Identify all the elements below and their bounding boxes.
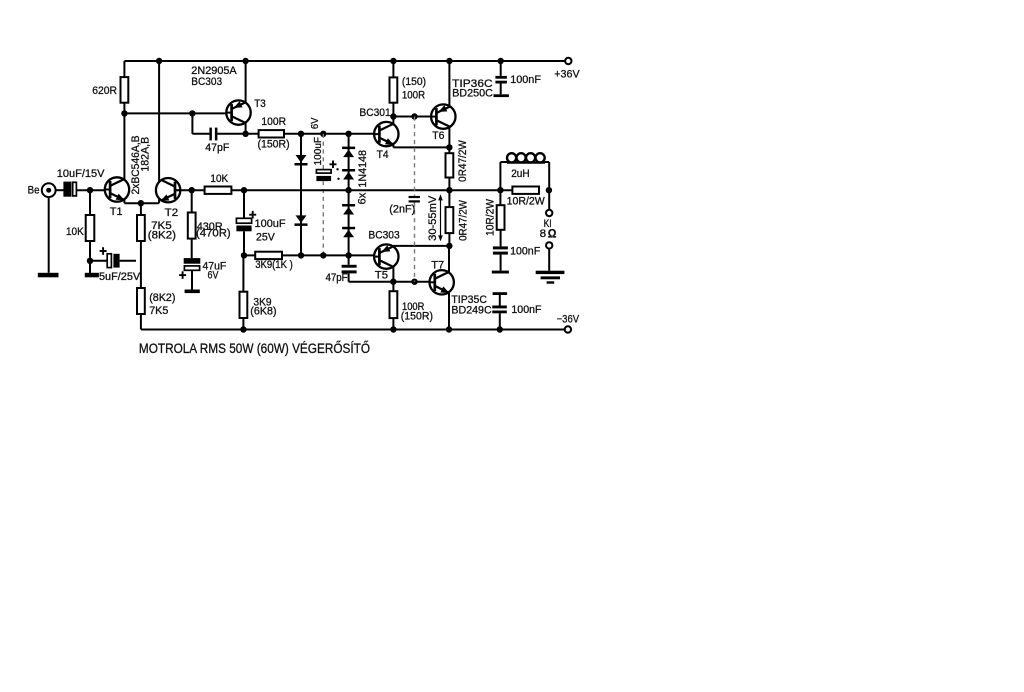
svg-text:(150R): (150R) xyxy=(258,139,290,151)
svg-text:T4: T4 xyxy=(377,149,389,161)
svg-text:(6K8): (6K8) xyxy=(250,306,276,318)
svg-text:BD249C: BD249C xyxy=(451,304,491,316)
svg-text:0R47/2W: 0R47/2W xyxy=(457,200,469,241)
svg-text:100uF: 100uF xyxy=(255,218,286,230)
svg-text:Ω: Ω xyxy=(548,226,557,240)
svg-text:100nF: 100nF xyxy=(511,304,541,316)
svg-text:620R: 620R xyxy=(92,85,117,97)
svg-text:10uF/15V: 10uF/15V xyxy=(57,168,105,180)
svg-text:BC303: BC303 xyxy=(368,229,399,241)
svg-text:(470R): (470R) xyxy=(196,228,231,240)
svg-text:T1: T1 xyxy=(110,206,123,218)
svg-text:(8K2): (8K2) xyxy=(148,230,176,242)
svg-text:10K: 10K xyxy=(210,173,228,185)
svg-text:−36V: −36V xyxy=(557,313,580,325)
svg-text:47pF: 47pF xyxy=(205,142,229,154)
svg-text:BC303: BC303 xyxy=(191,76,222,88)
svg-text:100uF: 100uF xyxy=(313,137,324,166)
svg-text:Be: Be xyxy=(28,185,40,197)
svg-text:100R: 100R xyxy=(402,90,425,102)
svg-text:2uH: 2uH xyxy=(511,168,530,180)
svg-text:MOTROLA RMS 50W (60W) VÉGERŐSÍ: MOTROLA RMS 50W (60W) VÉGERŐSÍTŐ xyxy=(139,340,370,357)
svg-text:7K5: 7K5 xyxy=(149,305,168,317)
svg-text:6x: 6x xyxy=(357,192,369,204)
svg-text:8: 8 xyxy=(540,228,547,240)
svg-text:3K9(1K ): 3K9(1K ) xyxy=(255,259,293,271)
svg-text:T7: T7 xyxy=(431,260,444,272)
svg-text:T6: T6 xyxy=(432,130,444,142)
svg-text:182A,B: 182A,B xyxy=(139,137,151,172)
svg-text:100R: 100R xyxy=(261,116,286,128)
svg-text:T2: T2 xyxy=(165,207,179,219)
svg-text:(8K2): (8K2) xyxy=(149,292,175,304)
svg-text:(150R): (150R) xyxy=(401,311,433,323)
svg-text:T5: T5 xyxy=(375,269,388,281)
svg-text:BD250C: BD250C xyxy=(452,88,493,100)
svg-text:+36V: +36V xyxy=(554,69,580,81)
svg-text:(2nF): (2nF) xyxy=(389,203,415,215)
svg-text:30-55mV: 30-55mV xyxy=(427,195,439,241)
svg-text:BC301: BC301 xyxy=(359,107,390,119)
svg-text:1N4148: 1N4148 xyxy=(357,150,369,188)
svg-text:10R/2W: 10R/2W xyxy=(507,195,546,207)
svg-text:100nF: 100nF xyxy=(510,74,541,86)
svg-text:25V: 25V xyxy=(256,232,275,244)
svg-text:(150): (150) xyxy=(402,76,426,88)
svg-text:100nF: 100nF xyxy=(510,246,540,258)
svg-text:0R47/2W: 0R47/2W xyxy=(457,140,469,182)
svg-text:10K: 10K xyxy=(66,226,84,238)
svg-text:47pF: 47pF xyxy=(326,272,348,284)
svg-text:5uF/25V: 5uF/25V xyxy=(99,271,141,283)
svg-text:6V: 6V xyxy=(208,269,219,281)
svg-text:T3: T3 xyxy=(254,98,266,110)
svg-text:10R/2W: 10R/2W xyxy=(485,198,497,236)
svg-text:6V: 6V xyxy=(309,117,321,129)
